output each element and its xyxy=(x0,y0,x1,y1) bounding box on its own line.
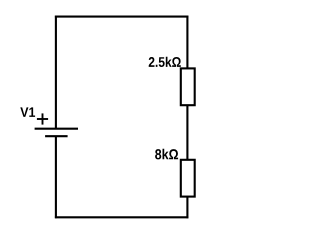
value label 8kOhm xyxy=(155,149,178,160)
label V1 xyxy=(20,107,35,116)
wire right upper segment xyxy=(186,16,188,69)
polarity plus sign xyxy=(37,113,48,124)
wire bottom xyxy=(55,216,189,218)
wire right lower segment xyxy=(186,196,188,218)
wire left lower segment xyxy=(55,136,57,218)
wire top xyxy=(55,16,189,18)
wire right middle segment xyxy=(186,105,188,161)
battery V1 (voltage source) xyxy=(35,129,78,137)
resistor R1 xyxy=(181,68,195,105)
value label 2.5kOhm xyxy=(149,57,181,67)
resistor R2 xyxy=(181,160,195,197)
wire left upper segment xyxy=(55,16,57,129)
